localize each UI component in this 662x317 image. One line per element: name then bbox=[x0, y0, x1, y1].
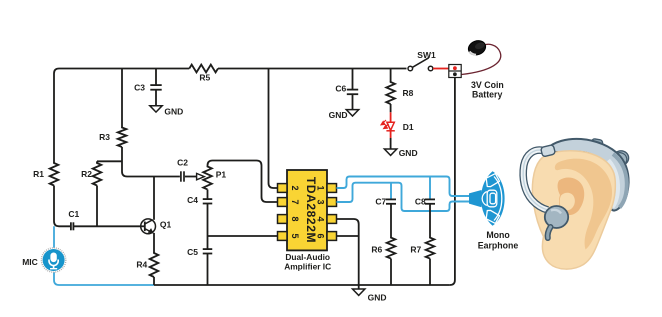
svg-text:C8: C8 bbox=[415, 196, 426, 206]
wire Q1 collector up to C2 line bbox=[153, 177, 155, 220]
wire C5 to bottom rail bbox=[207, 253, 209, 285]
wire junction to IC pin 5 bbox=[208, 235, 278, 237]
svg-text:R5: R5 bbox=[199, 73, 210, 83]
wire C8 riser (blue) bbox=[429, 177, 431, 200]
capacitor C3 bbox=[150, 85, 161, 90]
pin 8 bbox=[278, 215, 288, 224]
LED D1 bbox=[381, 120, 395, 138]
svg-text:R2: R2 bbox=[81, 169, 92, 179]
svg-text:7: 7 bbox=[290, 199, 300, 204]
wire C4 to pin5 junction to C5 bbox=[207, 203, 209, 249]
microphone MIC icon bbox=[41, 248, 65, 272]
wire R8 to D1 bbox=[390, 104, 392, 112]
svg-text:Mono: Mono bbox=[486, 230, 510, 240]
pin 5 bbox=[278, 232, 288, 241]
battery terminal box bbox=[449, 65, 461, 78]
svg-text:Dual-Audio: Dual-Audio bbox=[285, 252, 330, 262]
svg-text:R3: R3 bbox=[99, 132, 110, 142]
wire D1 to ground bbox=[390, 138, 392, 149]
wire Q1 emitter to R4 bbox=[153, 233, 155, 253]
hearing aid knob tab bbox=[591, 138, 603, 147]
pin 7 bbox=[278, 198, 288, 207]
svg-text:GND: GND bbox=[368, 293, 387, 303]
wire R6 to bottom rail bbox=[390, 259, 392, 285]
hearing aid earpiece dome bbox=[545, 206, 568, 228]
pin 4 bbox=[327, 215, 337, 224]
svg-text:Amplifier IC: Amplifier IC bbox=[284, 262, 331, 272]
potentiometer P1 bbox=[203, 166, 212, 189]
capacitor C3 lead bbox=[155, 69, 157, 106]
transistor Q1 bbox=[141, 219, 156, 234]
svg-text:P1: P1 bbox=[216, 170, 227, 180]
wire R7 to bottom rail bbox=[429, 259, 431, 285]
svg-text:D1: D1 bbox=[403, 122, 414, 132]
wire R3 riser from top rail bbox=[121, 69, 123, 128]
svg-text:C7: C7 bbox=[375, 196, 386, 206]
resistor R1 bbox=[50, 163, 59, 186]
svg-text:5: 5 bbox=[290, 233, 300, 238]
resistor R7 bbox=[426, 237, 435, 259]
wire IC pin3 to earphone (blue) bbox=[337, 183, 470, 211]
capacitor C5 bbox=[203, 249, 213, 253]
svg-text:SW1: SW1 bbox=[417, 50, 436, 60]
svg-text:C6: C6 bbox=[335, 84, 346, 94]
svg-text:C5: C5 bbox=[187, 247, 198, 257]
svg-text:C2: C2 bbox=[177, 158, 188, 168]
svg-text:8: 8 bbox=[290, 216, 300, 221]
wire bottom ground rail bbox=[154, 284, 450, 286]
wire R4 to bottom rail bbox=[153, 277, 155, 285]
svg-text:R1: R1 bbox=[33, 169, 44, 179]
mono earphone icon bbox=[469, 171, 505, 225]
wire R1 to C1 junction bbox=[54, 186, 59, 227]
capacitor C1 bbox=[59, 225, 141, 227]
hearing aid knob dial bbox=[613, 151, 628, 165]
wire top rail down to IC pin 2 bbox=[269, 69, 278, 189]
capacitor C7 bbox=[386, 199, 396, 203]
wire IC pin1 to earphone (blue) bbox=[337, 177, 470, 197]
hearing aid body behind ear bbox=[547, 139, 629, 211]
capacitor C2 bbox=[154, 176, 180, 178]
svg-text:2: 2 bbox=[290, 185, 300, 190]
ground below D1 bbox=[384, 149, 396, 155]
hearing aid tube bbox=[523, 150, 548, 210]
svg-text:3V Coin: 3V Coin bbox=[471, 80, 504, 90]
earpiece canal tip bbox=[548, 227, 551, 238]
capacitor C4 bbox=[203, 199, 213, 203]
svg-text:R6: R6 bbox=[371, 244, 382, 254]
resistor R3 bbox=[118, 127, 127, 147]
svg-text:C3: C3 bbox=[134, 82, 145, 92]
svg-text:4: 4 bbox=[316, 216, 326, 221]
ear outer bbox=[532, 151, 615, 269]
tube anchor on body bbox=[541, 145, 556, 157]
ear antihelix light bbox=[553, 172, 590, 223]
svg-text:GND: GND bbox=[329, 110, 348, 120]
hearing aid ear illustration bbox=[523, 138, 628, 269]
wire C7 riser (blue) bbox=[390, 183, 392, 200]
switch SW1 bbox=[408, 58, 433, 71]
svg-text:MIC: MIC bbox=[22, 257, 38, 267]
svg-text:Battery: Battery bbox=[472, 89, 502, 99]
capacitor C8 bbox=[425, 199, 435, 203]
svg-text:Earphone: Earphone bbox=[478, 240, 519, 250]
wire switch to battery (red) bbox=[433, 68, 449, 70]
microphone MIC wire (blue) bbox=[54, 226, 154, 285]
op-amp U1 TDA2822M IC body bbox=[287, 170, 327, 250]
wire R2 bottom to base line bbox=[96, 186, 98, 227]
wire R3 bottom to R2 jog and down to C2 line bbox=[97, 147, 154, 177]
resistor R6 bbox=[387, 237, 396, 259]
pin 1 bbox=[327, 184, 337, 193]
svg-text:6: 6 bbox=[316, 233, 326, 238]
pin 6 bbox=[327, 232, 337, 241]
3V coin cell bbox=[466, 38, 487, 57]
ground bottom rail bbox=[358, 285, 360, 289]
wire left rail top corner bbox=[54, 69, 59, 164]
svg-text:C4: C4 bbox=[187, 195, 198, 205]
wire C8 to R7 bbox=[429, 204, 431, 238]
wire IC pin6 to ground trunk bbox=[337, 235, 359, 237]
capacitor C6 lead bbox=[352, 69, 354, 110]
svg-text:GND: GND bbox=[399, 148, 418, 158]
svg-text:R8: R8 bbox=[403, 88, 414, 98]
ear canal light bbox=[560, 193, 575, 211]
capacitor C6 bbox=[347, 90, 358, 95]
battery curved wire to coin cell bbox=[462, 44, 501, 74]
wire P1 top to IC pin 7 bbox=[208, 161, 278, 203]
potentiometer P1 wiper arrow bbox=[185, 176, 197, 178]
resistor R4 bbox=[150, 253, 159, 278]
ground below C6 bbox=[346, 110, 358, 116]
pin 3 bbox=[327, 198, 337, 207]
wire P1 bottom to C4 bbox=[207, 190, 209, 200]
resistor R5 bbox=[189, 65, 218, 73]
svg-text:C1: C1 bbox=[68, 209, 79, 219]
svg-text:Q1: Q1 bbox=[160, 220, 172, 230]
ear concha swirl bbox=[558, 178, 585, 216]
svg-text:R4: R4 bbox=[136, 260, 147, 270]
wire IC pin4 to ground trunk bbox=[337, 219, 359, 285]
svg-text:1: 1 bbox=[316, 185, 326, 190]
resistor R2 bbox=[96, 161, 98, 163]
svg-text:R7: R7 bbox=[410, 244, 421, 254]
ear helix inner bbox=[555, 159, 612, 250]
pin 2 bbox=[278, 184, 288, 193]
svg-text:3: 3 bbox=[316, 199, 326, 204]
ground below C3 bbox=[150, 106, 162, 112]
svg-text:GND: GND bbox=[164, 107, 183, 117]
resistor R8 bbox=[386, 82, 395, 105]
wire right rail battery down to bottom bbox=[450, 78, 455, 286]
wire C7 to R6 bbox=[390, 204, 392, 238]
wire top supply rail bbox=[59, 68, 407, 70]
resistor R8 riser bbox=[390, 69, 392, 83]
